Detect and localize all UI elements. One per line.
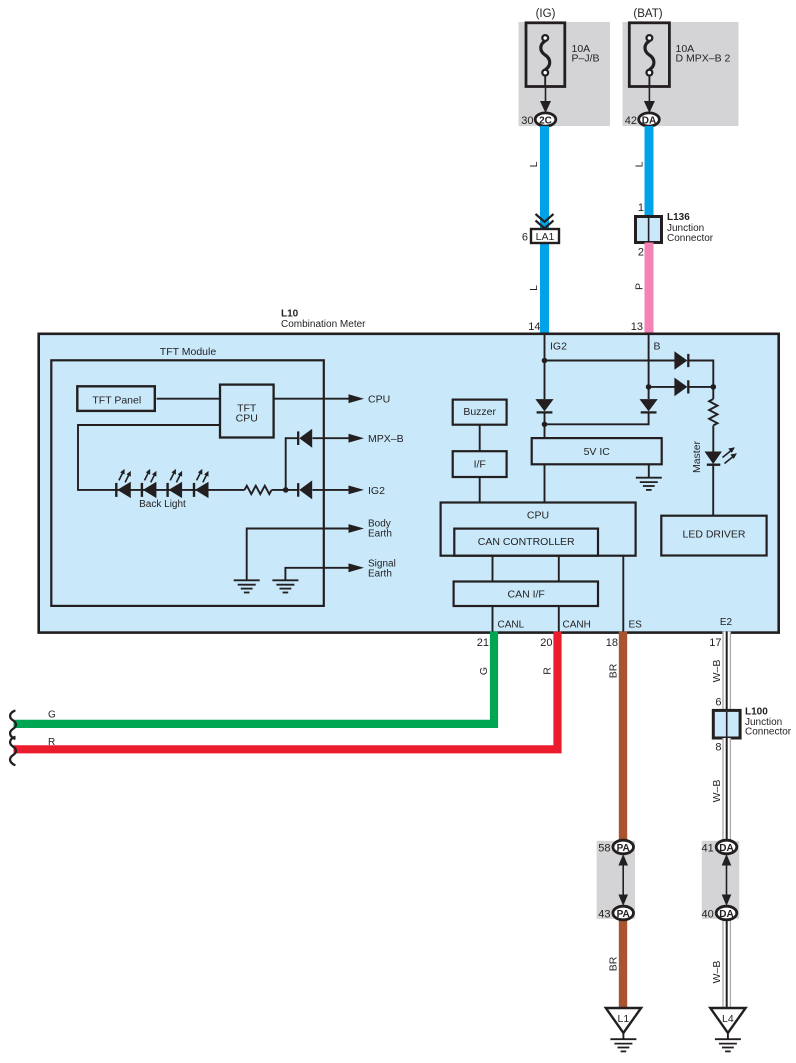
block 5V IC	[532, 438, 662, 464]
svg-text:CANL: CANL	[498, 619, 525, 630]
LED backlight 1	[116, 469, 131, 498]
wire W-B (white, E2) segment 1	[722, 632, 731, 711]
svg-text:G: G	[478, 667, 490, 675]
wire fuse F1 to connector 2C with arrowhead	[540, 88, 551, 114]
LED backlight 2	[142, 469, 157, 498]
svg-text:E2: E2	[720, 617, 733, 628]
connector pin 58 oval PA	[613, 840, 634, 854]
connector double arrow (DA)	[722, 854, 732, 906]
junction connector L136	[636, 217, 662, 243]
svg-text:PA: PA	[617, 909, 630, 920]
wire TFT CPU to backlight LED chain	[78, 425, 220, 490]
svg-text:58: 58	[598, 843, 610, 855]
svg-text:(BAT): (BAT)	[633, 8, 662, 20]
svg-text:6: 6	[715, 697, 721, 709]
output arrow IG2	[349, 486, 365, 495]
diode D5 (IG2 rail, pointing down)	[535, 399, 553, 412]
svg-text:BR: BR	[608, 663, 620, 678]
svg-text:CANH: CANH	[563, 619, 591, 630]
TFT Module sub-box	[51, 360, 324, 606]
fuse F1 10A P-J/B	[526, 23, 565, 87]
svg-text:R: R	[48, 737, 55, 748]
svg-text:CPU: CPU	[368, 394, 390, 406]
wire 5V IC to CPU	[544, 464, 546, 502]
ground (L4)	[715, 1039, 741, 1051]
svg-text:13: 13	[631, 321, 643, 333]
svg-text:TFT Module: TFT Module	[160, 346, 217, 358]
fuse F2 10A D MPX-B 2	[629, 23, 669, 87]
svg-text:L: L	[634, 161, 646, 167]
block Buzzer	[453, 400, 507, 425]
svg-text:TFT Panel: TFT Panel	[92, 394, 141, 406]
block I/F	[453, 451, 507, 477]
svg-text:LED DRIVER: LED DRIVER	[682, 529, 745, 541]
ground (5V IC)	[636, 478, 662, 490]
svg-text:20: 20	[540, 637, 552, 649]
svg-text:CPU: CPU	[527, 509, 549, 521]
svg-text:DA: DA	[719, 843, 733, 854]
wire B (pin 13) vertical	[648, 334, 650, 399]
wire CPU to ES pin	[622, 556, 624, 632]
svg-text:R: R	[542, 667, 554, 675]
diode D4 (anode left, pointing right)	[674, 378, 688, 397]
svg-text:1: 1	[638, 202, 644, 214]
connector pin 41 oval DA	[716, 840, 737, 854]
svg-text:D MPX–B 2: D MPX–B 2	[676, 53, 731, 65]
wire P (pink) from L136 pin 2 to pin 13	[645, 243, 654, 334]
wire joining D6 to D5 rail	[545, 412, 649, 424]
svg-text:I/F: I/F	[474, 459, 486, 471]
svg-text:Combination Meter: Combination Meter	[281, 319, 366, 330]
ground triangle L4	[710, 1008, 745, 1033]
wire resistor to IG2 diode	[272, 489, 299, 491]
svg-text:L10: L10	[281, 309, 299, 320]
svg-text:CAN I/F: CAN I/F	[508, 589, 545, 601]
svg-text:43: 43	[598, 909, 610, 921]
wire W-B (white, E2) segment 2	[722, 738, 731, 846]
connector pin 42 oval DA	[639, 113, 660, 127]
wire backlight LED chain	[116, 489, 245, 491]
wire diode D2 to IG2 arrow	[313, 489, 350, 491]
svg-text:P: P	[634, 283, 646, 290]
connector block (DA ovals) background	[702, 841, 740, 919]
svg-text:5V IC: 5V IC	[584, 446, 611, 458]
output arrow Signal Earth	[349, 563, 365, 572]
wire G (green, CANL)	[14, 632, 495, 724]
svg-text:DA: DA	[719, 909, 733, 920]
continuation squiggle (R wire)	[10, 737, 16, 765]
svg-text:G: G	[48, 710, 56, 721]
connector pin 30 oval 2C	[535, 113, 556, 127]
svg-text:CPU: CPU	[236, 413, 258, 425]
wire diode D5 to 5V IC	[544, 412, 546, 438]
wire resistor R1 to master LED	[712, 425, 714, 451]
wire BR (brown, ES) lower segment	[619, 914, 627, 1009]
diode D6 (B rail, pointing down)	[640, 399, 658, 412]
output arrow MPX-B	[349, 434, 365, 443]
wire TFT Panel to TFT CPU	[157, 398, 220, 400]
LED master (pointing down)	[705, 447, 738, 464]
wire diode D3 to right corner	[688, 361, 713, 387]
svg-text:21: 21	[477, 637, 489, 649]
svg-text:L1: L1	[618, 1013, 630, 1025]
wire fuse F2 to connector DA with arrowhead	[644, 88, 655, 114]
svg-text:W–B: W–B	[711, 780, 723, 803]
junction block background (BAT side, D MPX-B)	[623, 22, 739, 126]
splice chevron above LA1	[536, 214, 554, 228]
svg-text:DA: DA	[642, 116, 656, 127]
svg-text:CAN CONTROLLER: CAN CONTROLLER	[478, 536, 575, 548]
connector block (PA ovals) background	[597, 841, 635, 919]
svg-text:40: 40	[702, 909, 714, 921]
TFT Panel block	[77, 386, 155, 411]
diode D1 (MPX-B, cathode left)	[298, 429, 312, 448]
ground (Body Earth)	[234, 580, 260, 592]
block LED DRIVER	[661, 516, 766, 556]
svg-text:PA: PA	[617, 843, 630, 854]
ground (Signal Earth)	[272, 580, 298, 592]
svg-text:8: 8	[715, 742, 721, 754]
svg-text:30: 30	[521, 115, 533, 127]
node junction dot below D5	[542, 422, 548, 428]
wire L (cyan) from DA to junction connector L136 pin 1	[645, 126, 654, 217]
svg-text:W–B: W–B	[711, 961, 723, 984]
wire Signal Earth	[285, 568, 349, 580]
wire BR (brown, ES) upper segment	[619, 632, 627, 847]
svg-text:P–J/B: P–J/B	[572, 53, 600, 65]
wire Body Earth	[247, 529, 350, 580]
wire junction to resistor R1	[712, 387, 714, 399]
svg-text:2C: 2C	[539, 116, 552, 127]
svg-text:Back Light: Back Light	[139, 499, 186, 510]
wire I/F to CPU	[479, 477, 481, 503]
wire CAN I/F to CANH pin	[558, 606, 560, 632]
wire B junction to diode D4	[649, 386, 675, 388]
svg-text:L136: L136	[667, 212, 690, 223]
wire CAN I/F to CANL pin	[492, 606, 494, 632]
resistor R1 (master LED series)	[709, 399, 717, 425]
wire L1 to ground	[622, 1033, 624, 1039]
svg-text:W–B: W–B	[711, 660, 723, 683]
wire L4 to ground	[727, 1033, 729, 1039]
svg-text:Buzzer: Buzzer	[463, 406, 496, 418]
wire CAN CONTROLLER to CAN I/F (right)	[558, 556, 560, 582]
wire TFT CPU to CPU output arrow	[273, 398, 349, 400]
svg-text:(IG): (IG)	[536, 8, 556, 20]
svg-text:Connector: Connector	[667, 233, 714, 244]
wire junction up to MPX-B diode	[286, 438, 299, 490]
svg-text:IG2: IG2	[368, 485, 385, 497]
block CAN I/F	[454, 582, 598, 607]
continuation squiggle (G wire)	[10, 711, 16, 739]
svg-text:14: 14	[528, 321, 540, 333]
node junction dot on B line	[646, 384, 652, 390]
svg-text:41: 41	[702, 843, 714, 855]
svg-text:Earth: Earth	[368, 569, 392, 580]
TFT CPU block	[220, 385, 274, 438]
wire master LED to LED DRIVER	[712, 465, 714, 516]
wire W-B (white, E2) segment 3	[722, 914, 731, 1009]
svg-text:L: L	[528, 161, 540, 167]
svg-text:BR: BR	[608, 956, 620, 971]
connector pin 43 oval PA	[613, 906, 634, 920]
wire R (red, CANH)	[14, 632, 558, 750]
junction block background (IG side, P-J/B)	[519, 22, 611, 126]
resistor (backlight series)	[245, 486, 272, 494]
svg-text:IG2: IG2	[550, 341, 567, 353]
component L10 Combination Meter body	[39, 334, 779, 633]
svg-text:Master: Master	[691, 440, 703, 473]
node junction dot	[283, 487, 289, 493]
diode D3 (anode left, pointing right)	[674, 351, 688, 370]
svg-text:MPX–B: MPX–B	[368, 433, 404, 445]
wire CAN CONTROLLER to CAN I/F (left)	[492, 556, 494, 582]
connector LA1	[531, 229, 559, 243]
ground triangle L1	[606, 1008, 641, 1033]
connector pin 40 oval DA	[716, 906, 737, 920]
wire Buzzer to I/F	[479, 425, 481, 452]
svg-text:17: 17	[709, 637, 721, 649]
wire L (cyan) from 2C to pin 14	[540, 126, 549, 333]
ground (L1)	[610, 1039, 636, 1051]
wire IG2 (pin 14) vertical into 5V IC	[544, 334, 546, 399]
LED backlight 4	[194, 469, 209, 498]
svg-text:ES: ES	[629, 619, 643, 630]
svg-text:42: 42	[625, 115, 637, 127]
svg-text:18: 18	[606, 637, 618, 649]
output arrow Body Earth	[349, 524, 365, 533]
wire diode D1 to MPX-B arrow	[313, 437, 350, 439]
connector double arrow (PA)	[618, 854, 628, 906]
block CPU	[441, 503, 636, 556]
svg-text:L: L	[528, 285, 540, 291]
svg-text:L4: L4	[722, 1013, 734, 1025]
wire diode D4 to master LED branch	[688, 386, 713, 388]
svg-text:B: B	[654, 341, 661, 353]
node junction dot (master branch)	[711, 384, 717, 390]
output arrow CPU	[349, 394, 365, 403]
wire 5V IC to ground	[648, 464, 650, 477]
block CAN CONTROLLER	[454, 529, 598, 556]
wire IG2 junction to diode D3	[545, 360, 675, 362]
node junction dot on IG2 line	[542, 358, 548, 364]
svg-text:LA1: LA1	[536, 231, 555, 243]
svg-text:2: 2	[638, 247, 644, 259]
diode D2 (IG2, cathode left)	[298, 480, 312, 499]
svg-text:6: 6	[522, 232, 528, 244]
junction connector L100	[713, 710, 740, 738]
svg-text:Earth: Earth	[368, 529, 392, 540]
LED backlight 3	[168, 469, 183, 498]
svg-text:Connector: Connector	[745, 727, 792, 738]
